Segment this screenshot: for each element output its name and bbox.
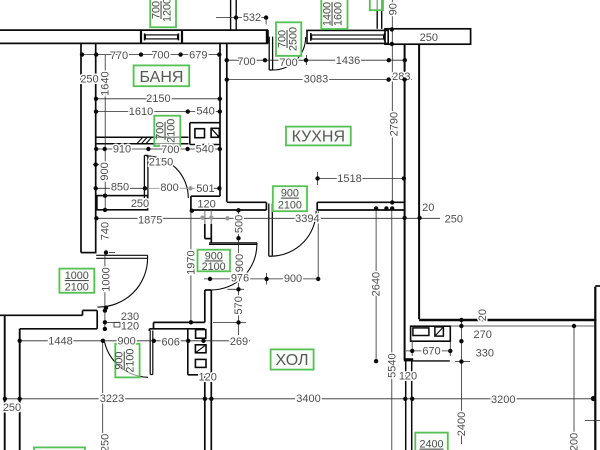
svg-text:20: 20 [477, 309, 489, 321]
svg-text:270: 270 [474, 329, 492, 341]
kitchen bottom wall left part lower line [191, 209, 267, 211]
bath bottom wall band [96, 136, 189, 138]
br shaft outline [411, 326, 451, 341]
br room top edge line [412, 360, 450, 362]
svg-text:1200: 1200 [162, 0, 174, 22]
hall shaft square mid hatched [195, 345, 206, 353]
svg-text:120: 120 [399, 371, 417, 383]
svg-text:250: 250 [99, 434, 111, 450]
hall mid wall segment [204, 290, 206, 322]
green boxes [34, 0, 448, 450]
box 700/1200 [150, 0, 176, 27]
right side horizontal wall [419, 319, 596, 321]
svg-text:3083: 3083 [304, 74, 328, 86]
bath left wall outer line [80, 43, 82, 252]
svg-text:120: 120 [199, 372, 217, 384]
svg-text:330: 330 [476, 348, 494, 360]
svg-text:700: 700 [279, 57, 297, 69]
svg-text:1000: 1000 [65, 270, 89, 282]
svg-text:700: 700 [161, 144, 179, 156]
bath left wall bottom cap above door [81, 252, 97, 254]
dimension texts horizontal [3, 12, 516, 414]
br shaft square hatched [435, 327, 444, 336]
svg-text:900: 900 [234, 254, 246, 272]
hall shaft outline [187, 329, 189, 375]
hall shaft square top [196, 330, 206, 339]
bath shaft outline [190, 122, 220, 124]
kitchen right wall line 2 [418, 44, 420, 319]
box bath label [134, 65, 190, 86]
small room door arc [146, 156, 188, 198]
svg-text:2150: 2150 [146, 93, 170, 105]
svg-text:740: 740 [99, 222, 111, 240]
kitchen window outer frame [307, 30, 388, 43]
svg-text:1518: 1518 [337, 173, 361, 185]
svg-text:200: 200 [568, 433, 580, 450]
svg-text:КУХНЯ: КУХНЯ [292, 128, 345, 145]
svg-text:250: 250 [3, 402, 21, 414]
pier wall 250 [97, 196, 148, 210]
svg-text:1970: 1970 [185, 250, 197, 274]
svg-text:2100: 2100 [65, 282, 89, 294]
jamb at x190.9 [190, 196, 192, 210]
top wall end cap [266, 30, 269, 43]
svg-text:679: 679 [189, 49, 207, 61]
svg-text:250: 250 [420, 32, 438, 44]
svg-text:501: 501 [196, 183, 214, 195]
svg-text:2150: 2150 [149, 157, 173, 169]
box 900/2100 bottom [115, 344, 139, 378]
box 900/2100 kitchen door [273, 186, 307, 211]
svg-text:540: 540 [196, 144, 214, 156]
kitchen window jamb brackets [310, 33, 312, 41]
hall nook wall black part [204, 224, 206, 239]
door 1000 leaf [96, 254, 147, 256]
box tiny top [370, 0, 383, 10]
box kitchen label [286, 127, 351, 146]
lower center wall line [204, 375, 206, 450]
kitchen window sash [312, 35, 384, 39]
cap at x266.4 [265, 202, 267, 210]
svg-text:ХОЛ: ХОЛ [276, 352, 309, 369]
bottom door arc [105, 342, 149, 377]
svg-text:20: 20 [422, 202, 434, 214]
top-right wall header 250 [385, 29, 471, 44]
bath window sash [145, 35, 177, 39]
kitchen bottom wall left part upper line [191, 195, 220, 197]
dimension texts vertical [99, 3, 580, 450]
bath left wall inner line [95, 43, 97, 252]
svg-text:570: 570 [233, 296, 245, 314]
svg-text:1875: 1875 [138, 215, 162, 227]
hall upper door sill [209, 242, 257, 244]
green box texts [65, 0, 444, 450]
svg-text:283: 283 [392, 71, 410, 83]
svg-text:3200: 3200 [491, 394, 515, 406]
svg-text:2100: 2100 [166, 119, 178, 143]
hatch in bath bottom wall [137, 138, 143, 144]
bath right wall line 1 [219, 43, 221, 196]
svg-text:2400: 2400 [456, 412, 468, 436]
svg-text:2100: 2100 [125, 349, 137, 373]
kitchen door leaf [268, 204, 270, 257]
wall stub above kitchen window end [376, 0, 378, 29]
svg-text:3400: 3400 [296, 393, 320, 405]
svg-text:1436: 1436 [336, 55, 360, 67]
svg-text:3223: 3223 [100, 393, 124, 405]
svg-text:700: 700 [237, 56, 255, 68]
br shaft rect vent [413, 328, 429, 336]
svg-text:1640: 1640 [99, 71, 111, 95]
box hall label [271, 349, 314, 369]
svg-text:БАНЯ: БАНЯ [140, 69, 184, 86]
bath right wall line 2 [226, 43, 228, 201]
svg-text:2100: 2100 [278, 200, 302, 212]
right outer wall stub [595, 285, 600, 287]
box 700/2500 [276, 22, 301, 56]
svg-text:250: 250 [80, 74, 98, 86]
svg-text:900: 900 [117, 336, 135, 348]
box 2400/2400 [415, 433, 448, 450]
svg-text:770: 770 [110, 50, 128, 62]
svg-text:606: 606 [162, 337, 180, 349]
door 700/2500 arc [273, 37, 306, 70]
svg-text:900: 900 [281, 188, 299, 200]
small room door leaf [143, 155, 145, 198]
svg-text:1000: 1000 [101, 267, 113, 291]
hall bottom wall [154, 321, 205, 323]
box 1400/1600 [321, 0, 347, 29]
corner junction thick [404, 358, 413, 361]
bottom door leaf [149, 331, 151, 375]
svg-text:1600: 1600 [333, 2, 345, 26]
bath shaft square hatched [211, 128, 219, 137]
hall top wall line [227, 201, 267, 203]
svg-text:976: 976 [231, 273, 249, 285]
svg-text:900: 900 [284, 273, 302, 285]
hall shaft square bottom [195, 359, 206, 367]
door 700/2500 leaf [268, 37, 270, 70]
box 700/2100 [154, 116, 180, 146]
svg-text:1610: 1610 [129, 106, 153, 118]
top outer wall top line [0, 29, 268, 31]
kitchen bottom wall right part [316, 202, 318, 210]
svg-text:700: 700 [151, 50, 169, 62]
bath shaft square empty [195, 129, 205, 138]
svg-text:532: 532 [243, 12, 261, 24]
svg-text:910: 910 [113, 144, 131, 156]
svg-text:2100: 2100 [202, 261, 226, 273]
kitchen door arc [272, 211, 316, 257]
hall upper door arc [211, 244, 257, 290]
bottom-left outer wall lines [4, 315, 6, 450]
top outer wall bottom line [0, 42, 268, 44]
bath window jambs [144, 33, 146, 40]
wall stub above (532) [230, 0, 232, 30]
box 1000/2100 [59, 269, 94, 293]
svg-text:850: 850 [111, 182, 129, 194]
svg-text:540: 540 [196, 106, 214, 118]
svg-text:2790: 2790 [388, 112, 400, 136]
box 900/2100 hall [198, 250, 231, 272]
svg-text:5540: 5540 [386, 353, 398, 377]
svg-text:120: 120 [197, 199, 215, 211]
svg-text:2400: 2400 [419, 439, 443, 450]
svg-text:500: 500 [234, 215, 246, 233]
svg-text:269: 269 [230, 336, 248, 348]
svg-text:2640: 2640 [370, 272, 382, 296]
svg-text:250: 250 [131, 198, 149, 210]
svg-text:1448: 1448 [48, 336, 72, 348]
svg-text:2500: 2500 [288, 27, 300, 51]
svg-text:670: 670 [422, 346, 440, 358]
windows [141, 30, 388, 43]
lower right wall pair [405, 360, 407, 450]
kitchen right wall line 1 [404, 44, 406, 359]
svg-text:250: 250 [445, 213, 463, 225]
bath window end bars [140, 30, 142, 43]
right outer wall vertical [594, 287, 596, 450]
svg-text:900: 900 [99, 162, 111, 180]
door 1000 arc [97, 258, 147, 307]
box bottom edge [34, 447, 85, 450]
doors [96, 37, 316, 378]
svg-text:800: 800 [160, 182, 178, 194]
svg-text:3394: 3394 [295, 213, 319, 225]
svg-text:90: 90 [388, 3, 400, 15]
hall nook wall gray part [204, 211, 206, 225]
svg-text:120: 120 [121, 321, 139, 333]
bottom-left step wall [0, 314, 83, 316]
